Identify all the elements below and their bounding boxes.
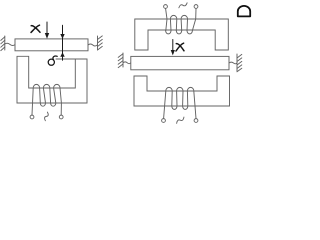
right figure: right spring (229, 62, 237, 64)
right figure: bottom terminal right (194, 119, 198, 123)
label delta (48, 56, 57, 65)
left figure: terminal left (30, 115, 34, 119)
right figure: left wall (118, 53, 123, 68)
right figure: bottom terminal left (162, 119, 166, 123)
left figure: U core (17, 56, 87, 103)
x arrow left figure (46, 22, 48, 34)
right figure: top terminal right (194, 5, 198, 9)
left figure: armature bar (15, 39, 88, 51)
left figure: right spring (88, 44, 98, 46)
left figure: gap extension line (56, 58, 75, 60)
right figure: bottom AC tilde (176, 117, 186, 123)
left figure: right wall (98, 36, 103, 50)
left figure: left wall (1, 36, 5, 51)
right figure: top AC tilde (178, 3, 188, 8)
right figure: right wall (237, 54, 242, 72)
label D (rotated) (238, 6, 250, 17)
left figure: left spring (5, 43, 15, 45)
right figure: top core (135, 19, 229, 50)
x arrow right figure (172, 40, 174, 51)
label x (right figure) (176, 43, 184, 51)
right figure: top terminal left (164, 5, 168, 9)
right figure: top coil (166, 9, 196, 34)
left figure: terminal right (59, 115, 63, 119)
right figure: bottom core (134, 76, 230, 106)
right figure: left spring (123, 62, 131, 64)
label x (left figure) (31, 25, 40, 32)
right figure: bottom coil (164, 87, 196, 118)
left figure: coil (32, 84, 61, 115)
delta dimension line (62, 25, 64, 60)
right figure: armature bar (131, 56, 229, 69)
left figure: AC tilde (43, 112, 50, 121)
